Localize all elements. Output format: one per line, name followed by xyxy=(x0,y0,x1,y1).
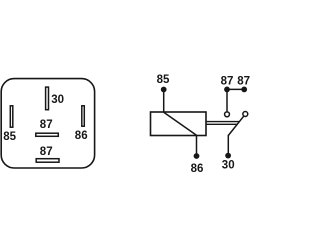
terminal dot 87 left xyxy=(224,87,230,93)
actuator link lower line xyxy=(206,123,237,125)
svg-text:86: 86 xyxy=(191,163,204,175)
actuator link upper line xyxy=(206,121,239,123)
wire 87 down to fixed contact xyxy=(226,89,228,111)
coil diagonal stroke xyxy=(164,112,197,135)
terminal dot 86 xyxy=(194,153,200,159)
armature (switch blade) xyxy=(228,116,243,135)
pin slot 30 (vertical, top center) xyxy=(46,87,49,110)
svg-text:87: 87 xyxy=(221,76,234,88)
wire coil to 86 xyxy=(196,136,198,157)
wire 85 to coil xyxy=(163,90,165,113)
pin slot 85 (vertical, left) xyxy=(10,106,13,127)
moving contact (open circle, armature tip) xyxy=(243,112,248,117)
wire armature to 30 xyxy=(227,135,229,156)
svg-text:85: 85 xyxy=(157,74,170,86)
terminal dot 30 xyxy=(225,153,231,159)
terminal dot 87 right xyxy=(241,87,247,93)
svg-text:30: 30 xyxy=(51,94,64,106)
pin slot 87 (horizontal, bottom) xyxy=(36,159,59,163)
terminal dot 85 xyxy=(161,87,167,93)
svg-text:86: 86 xyxy=(75,130,88,142)
svg-text:87: 87 xyxy=(40,119,53,131)
pin slot 87 (horizontal, middle) xyxy=(36,133,59,136)
pin slot 86 (vertical, right) xyxy=(82,106,85,126)
fixed contact (open circle, 87) xyxy=(225,112,230,117)
svg-text:30: 30 xyxy=(222,160,235,172)
wire linking 87 terminals xyxy=(227,88,244,90)
svg-text:87: 87 xyxy=(237,76,250,88)
coil K1 (rectangle) xyxy=(151,112,207,136)
svg-text:85: 85 xyxy=(3,131,16,143)
relay base outline (bottom view) xyxy=(1,79,94,168)
svg-text:87: 87 xyxy=(40,146,53,158)
